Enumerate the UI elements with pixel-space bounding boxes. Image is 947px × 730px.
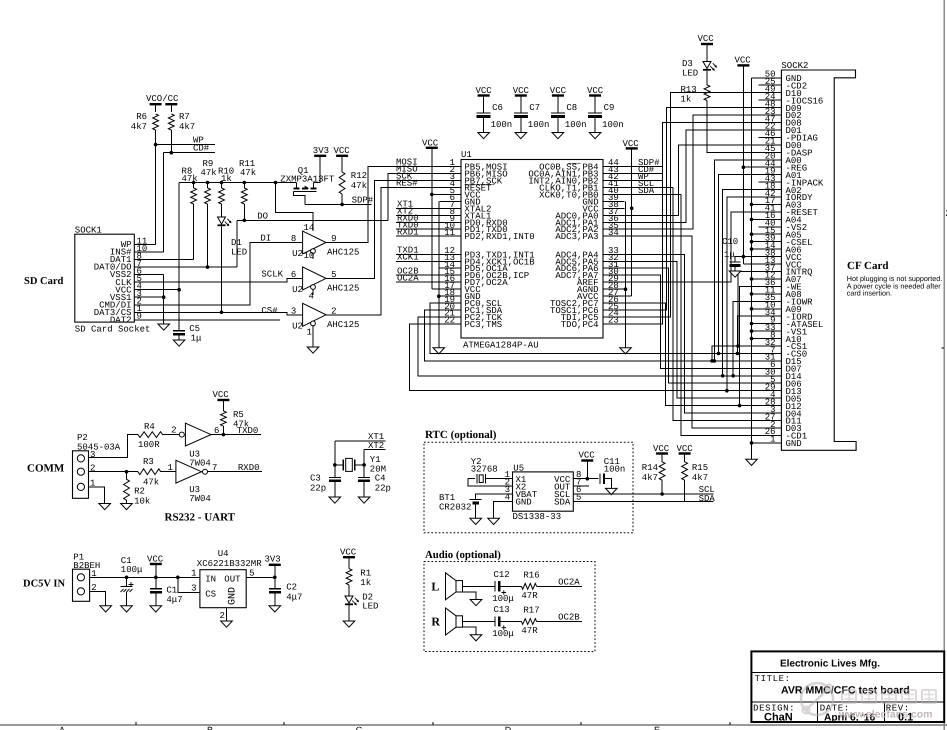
svg-text:CS: CS [205, 590, 216, 600]
net SDP# label U1 right [625, 166, 663, 168]
U1 pin 1 PB5,MOSI [440, 166, 462, 168]
svg-text:3: 3 [90, 450, 95, 460]
U1 pin 27 AVCC [603, 295, 625, 297]
power bar VCC C8 [552, 94, 564, 96]
wire AVCC stub [625, 295, 632, 297]
svg-text:ATMEGA1284P-AU: ATMEGA1284P-AU [463, 341, 539, 351]
SOCK2 pin 38 VCC [759, 256, 782, 258]
svg-text:R3: R3 [143, 457, 154, 467]
resistor R3 47k [138, 469, 161, 475]
resistor R6 [153, 114, 159, 130]
svg-text:SD Card: SD Card [24, 276, 64, 287]
svg-text:SDP#: SDP# [352, 196, 374, 206]
svg-text:6: 6 [291, 270, 296, 280]
svg-text:47k: 47k [143, 478, 159, 488]
SOCK2 pin 18 A02 [759, 189, 782, 191]
node U1 pin28 AGND [624, 287, 628, 291]
svg-text:RXD0: RXD0 [238, 463, 260, 473]
diode D3 LED [706, 44, 708, 62]
svg-text:SDA: SDA [638, 186, 655, 196]
svg-text:CF Card: CF Card [847, 260, 888, 272]
wire VCC bar to rail [155, 564, 157, 577]
wire VCC riser U1 left [431, 148, 433, 289]
ground C10 [729, 271, 741, 277]
svg-text:34: 34 [608, 228, 619, 238]
SOCK2 pin 47 D08 [759, 122, 782, 124]
net TXD1 label [396, 253, 440, 255]
wire U1 PC pin to CF row 4 [625, 108, 759, 311]
wire U1 pin17 VCC [432, 288, 440, 290]
svg-text:C7: C7 [529, 103, 540, 113]
svg-text:ChaN: ChaN [764, 712, 793, 724]
SOCK2 pin 10 A09 [752, 308, 782, 310]
SOCK2 pin 36 -WE [759, 285, 782, 287]
wire U1 pin 22 to CF row 42 [410, 324, 759, 391]
node CF GND rail row 27 [750, 277, 754, 281]
SOCK2 pin 13 VCC [759, 263, 782, 265]
resistor R10 [221, 183, 223, 189]
svg-text:47k: 47k [201, 168, 217, 178]
SOCK2 pin 49 D10 [759, 92, 782, 94]
SOCK2 pin 41 -RESET [759, 211, 782, 213]
svg-text:1: 1 [307, 328, 312, 338]
resistor R13 1k [706, 71, 708, 85]
wire U5 GND pin4 [494, 501, 513, 518]
U1 pin 32 ADC5,PA5 [603, 260, 625, 262]
capacitor C8 100n [557, 96, 559, 114]
capacitor C12 100u [494, 581, 496, 591]
svg-text:U2: U2 [292, 322, 303, 332]
wire XT2 riser [363, 449, 365, 465]
grid tick [135, 722, 137, 725]
wire P2 pin1 to ground [89, 487, 105, 504]
wire XT1 riser [334, 441, 336, 465]
U1 pin 40 XCK0,T0,PB0 [603, 193, 625, 195]
title block outer box [751, 651, 944, 722]
SOCK2 pin 30 D14 [759, 375, 782, 377]
net SDA line [573, 500, 713, 502]
ground C4 [358, 497, 370, 503]
ground P1 [100, 606, 112, 612]
svg-text:XC6221B332MR: XC6221B332MR [197, 559, 262, 569]
svg-text:AHC125: AHC125 [327, 248, 359, 258]
svg-text:VCC: VCC [334, 146, 351, 156]
svg-text:100n: 100n [565, 120, 587, 130]
svg-text:CR2032: CR2032 [439, 503, 471, 513]
power bar VCO/CC right [165, 103, 177, 105]
power bar VCC R15 [679, 452, 691, 454]
wire speaker R [463, 621, 495, 623]
wire Y2 loop to X2 [468, 479, 513, 487]
wire WP to SD socket pin 11 [155, 145, 157, 245]
U1 pin 29 AREF [603, 281, 625, 283]
diode D1 LED [221, 204, 223, 217]
node CF GND rail row 35 [750, 337, 754, 341]
resistor R15 4k7 [684, 454, 686, 462]
wire speaker L [463, 585, 495, 587]
power bar VCO/CC left [150, 103, 162, 105]
U1 pin 33 ADC4,PA4 [603, 253, 625, 255]
svg-text:Y1: Y1 [370, 455, 381, 465]
svg-text:VCC: VCC [213, 390, 230, 400]
node C1 top [125, 576, 129, 580]
node CF GND rail row 19 [750, 218, 754, 222]
wire CD# to SD socket pin 10 [163, 153, 165, 252]
svg-text:SCLK: SCLK [261, 270, 283, 280]
U1 pin 15 PD6,OC2B,ICP [440, 274, 462, 276]
grid tick [283, 722, 285, 725]
svg-text:R2: R2 [134, 487, 145, 497]
grid tick right border [942, 347, 945, 349]
svg-text:SDA: SDA [554, 498, 571, 508]
svg-text:ZXMP3A13FT: ZXMP3A13FT [280, 175, 335, 185]
node R10 top [220, 181, 224, 185]
net XT2 label [396, 214, 440, 216]
net SCL line [573, 493, 713, 495]
svg-text:MISO: MISO [396, 165, 418, 175]
net SDA label U1 right [625, 193, 682, 195]
svg-text:XT2: XT2 [368, 441, 384, 451]
svg-text:R17: R17 [523, 606, 539, 616]
SOCK2 pin 32 -CS1 [759, 345, 782, 347]
net TXD0 label [396, 228, 440, 230]
wire U1 ADC pin to CF row 5 [625, 115, 759, 229]
wire U1 right pin to CF row 47 [625, 236, 759, 428]
node R9 top [206, 181, 210, 185]
net WP label U1 right [625, 179, 663, 181]
node U1 pin38 VCC [630, 207, 634, 211]
svg-text:LED: LED [231, 248, 247, 258]
diode D2 LED [348, 585, 350, 596]
net SCL label U1 right [625, 186, 674, 188]
svg-text:C8: C8 [566, 103, 577, 113]
U1 pin 41 CLKO,T1,PB1 [603, 186, 625, 188]
U1 pin 22 PC3,TMS [440, 323, 462, 325]
svg-text:22p: 22p [375, 484, 391, 494]
power bar VCC input [150, 563, 162, 565]
wire SD CMD/DI row [134, 243, 302, 305]
svg-text:CS#: CS# [261, 306, 278, 316]
svg-text:VCC: VCC [735, 56, 752, 66]
SOCK2 pin 3 D04 [759, 412, 782, 414]
ground C2 [269, 606, 281, 612]
resistor R14 4k7 [661, 454, 663, 462]
net OC2B label [396, 274, 440, 276]
wire CF VCC pin13 [743, 263, 758, 265]
wire net -IORD riser [737, 316, 758, 353]
wire R6 top [155, 104, 157, 112]
node CF GND rail row 33 [750, 322, 754, 326]
wire SD DAT3/CS row [134, 312, 302, 315]
wire R3 to U3 inverter 2 [161, 471, 176, 473]
wire speaker R ground leg [463, 627, 477, 635]
U1 pin 13 PD4,XCK1,OC1B [440, 260, 462, 262]
svg-text:8: 8 [291, 234, 296, 244]
power bar VCC R5 [217, 399, 229, 401]
svg-text:C1: C1 [166, 586, 177, 596]
svg-text:B: B [207, 725, 213, 730]
node CF GND pin1 [750, 441, 754, 445]
resistor R2 10k [126, 472, 128, 480]
net DO line [237, 219, 388, 221]
watermark characters [842, 690, 936, 703]
wire R7 top [170, 104, 172, 112]
svg-text:100μ: 100μ [121, 565, 143, 575]
wire R13 to CF -DASP [707, 101, 759, 153]
U1 pin 24 TDI,PC5 [603, 316, 625, 318]
svg-text:3V3: 3V3 [265, 555, 281, 565]
ground U2 enable [307, 347, 319, 353]
wire CF VCC pin38 [743, 256, 758, 258]
svg-text:R5: R5 [233, 410, 244, 420]
U1 pin 42 INT2,AIN0,PB2 [603, 179, 625, 181]
ground C6 [478, 133, 490, 139]
wire SD VSS2 row [134, 274, 163, 276]
svg-text:LED: LED [362, 602, 378, 612]
SOCK2 pin 16 A04 [752, 218, 782, 220]
wire U1 ADC pin to CF row 9 [625, 145, 759, 216]
SOCK2 pin 19 A01 [759, 174, 782, 176]
node CF GND rail row 31 [750, 307, 754, 311]
border frame bottom line [0, 724, 947, 726]
U1 pin 30 ADC7,PA7 [603, 274, 625, 276]
SOCK2 pin 5 D06 [759, 382, 782, 384]
svg-text:ADC3,PA3: ADC3,PA3 [555, 232, 598, 242]
svg-text:D: D [505, 725, 512, 730]
net RXD1 label [396, 235, 440, 237]
node R12 bottom [340, 203, 344, 207]
power bar 3V3 out [269, 564, 281, 566]
node CD junction [170, 151, 174, 155]
U1 pin 3 PB7,SCK [440, 179, 462, 181]
node 3V3 out [273, 576, 277, 580]
SOCK2 pin 37 INTRQ [759, 271, 782, 273]
net RXD0 label [396, 221, 440, 223]
resistor R5 47k [222, 400, 224, 411]
wire speaker L ground leg [463, 592, 477, 600]
svg-text:1k: 1k [360, 578, 371, 588]
speaker R [446, 608, 457, 635]
wire 3V3 to Q1 [314, 156, 321, 183]
SOCK2 pin 12 A07 [752, 278, 782, 280]
SOCK2 pin 44 -REG [759, 166, 782, 168]
svg-text:www.elecfans.com: www.elecfans.com [838, 709, 933, 721]
node R14 SCL [660, 492, 664, 496]
Audio dashed box [424, 562, 595, 652]
SOCK2 pin 26 -CD1 [759, 434, 782, 436]
resistor R1 1k [348, 557, 350, 568]
svg-text:100n: 100n [604, 464, 626, 474]
wire SD WP row [134, 244, 155, 246]
wire U1 right pin to CF row 45 [625, 254, 759, 413]
svg-text:C12: C12 [494, 570, 510, 580]
node crystal right [362, 463, 366, 467]
svg-text:DC5V IN: DC5V IN [23, 579, 66, 590]
power bar VCC CF [737, 64, 749, 66]
U1 pin 26 TOSC2,PC7 [603, 302, 625, 304]
U1 pin 9 PD0,RXD0 [440, 221, 462, 223]
wire GND riser U1 right [625, 201, 627, 347]
svg-text:DS1338-33: DS1338-33 [513, 512, 562, 522]
node CF GND rail row 22 [750, 240, 754, 244]
SOCK2 pin 23 D02 [759, 114, 782, 116]
U1 pin 38 VCC [603, 207, 625, 209]
net SDP# line [305, 203, 371, 205]
power bar VCC C7 [515, 94, 527, 96]
wire U1 PC pin to CF row 2 [625, 93, 759, 317]
wire U5 OUT stub [573, 485, 589, 487]
node crystal left [333, 463, 337, 467]
wire P2 pin2 to R3 [89, 471, 138, 473]
svg-text:GND: GND [786, 439, 802, 449]
capacitor C6 100n [483, 96, 485, 114]
wire D2 to ground [348, 605, 350, 621]
U1 pin 5 VCC [440, 193, 462, 195]
node CF GND rail row 21 [750, 232, 754, 236]
svg-text:U2: U2 [292, 285, 303, 295]
svg-text:R13: R13 [681, 85, 697, 95]
wire net A00 riser [714, 160, 758, 361]
svg-text:47k: 47k [240, 168, 256, 178]
wire C12 to R16 [499, 585, 521, 587]
svg-text:4μ7: 4μ7 [166, 595, 182, 605]
svg-text:47R: 47R [521, 591, 538, 601]
wire U1 pin 26 to CF row 44 [625, 303, 759, 406]
node VCC tap [154, 576, 158, 580]
node WP junction [154, 143, 158, 147]
wire SD DAT2 row [134, 319, 280, 321]
SOCK2 pin 43 -INPACK [759, 181, 782, 183]
capacitor C4 22p [363, 465, 365, 478]
wire R16 to net OC2A [537, 585, 583, 587]
SOCK2 pin 48 D09 [759, 107, 782, 109]
power bar VCC R1 [343, 556, 355, 558]
wire DO from DAT0 riser [236, 220, 238, 267]
U1 pin 44 OC0B,SS,PB4 [603, 166, 625, 168]
wire P1 pin2 to ground [90, 591, 106, 605]
node SD VCC junction [177, 288, 181, 292]
svg-text:OC2A: OC2A [558, 578, 580, 588]
wire GND riser U1 left [438, 201, 440, 347]
svg-text:47k: 47k [182, 174, 198, 184]
wire CF VCC rail [742, 65, 744, 264]
wire U1 pin 20 to CF row 38 [425, 310, 759, 361]
watermark logo circle [801, 683, 833, 715]
svg-text:DO: DO [257, 212, 268, 222]
SOCK2 pin 39 -CSEL [752, 241, 782, 243]
U1 pin 39 GND [603, 200, 625, 202]
svg-text:U1: U1 [461, 150, 472, 160]
svg-text:BT1: BT1 [439, 493, 455, 503]
U1 pin 21 PC2,TCK [440, 316, 462, 318]
SOCK2 pin 4 D05 [759, 397, 782, 399]
node R9 DAT0 junction [206, 265, 210, 269]
wire SDA net to CF -CD1 [681, 194, 759, 435]
wire U1 right pin to CF row 41 [625, 268, 759, 383]
op-amp U3 inverter 1 7W04 [179, 432, 184, 437]
svg-text:4μ7: 4μ7 [286, 593, 302, 603]
U1 pin 7 XTAL2 [440, 207, 462, 209]
node R5 bottom [222, 433, 226, 437]
U1 pin 31 ADC6,PA6 [603, 267, 625, 269]
grid tick [729, 722, 731, 725]
ground C7 [515, 133, 527, 139]
node R11 top [243, 181, 247, 185]
svg-text:TITLE:: TITLE: [755, 674, 791, 684]
capacitor C2 4u7 [274, 577, 276, 588]
wire U2 buffer1 output to MOSI [326, 167, 461, 243]
wire U1 ADC pin to CF row 7 [625, 130, 759, 222]
power bar VCC U5 [581, 459, 593, 461]
ground R2 [126, 500, 128, 503]
wire U3 out to RXD0 [208, 471, 263, 473]
wire SD VSS1 row [134, 296, 163, 298]
capacitor C9 100n [594, 96, 596, 114]
svg-text:100n: 100n [491, 120, 513, 130]
node CF GND rail row 17 [750, 203, 754, 207]
svg-text:PD2,RXD1,INT0: PD2,RXD1,INT0 [464, 232, 534, 242]
svg-text:COMM: COMM [27, 463, 65, 475]
SOCK2 pin 28 D12 [759, 405, 782, 407]
capacitor C5 [173, 330, 185, 332]
wire DO to MISO [388, 173, 461, 220]
svg-text:L: L [431, 579, 439, 593]
svg-text:C6: C6 [492, 103, 503, 113]
svg-text:R1: R1 [360, 569, 371, 579]
ground C8 [552, 133, 564, 139]
wire SCL net to CF D11 [673, 187, 758, 420]
svg-text:2: 2 [171, 426, 176, 436]
ground P2 [99, 504, 111, 510]
svg-text:PC3,TMS: PC3,TMS [464, 320, 502, 330]
svg-text:OUT: OUT [224, 575, 241, 585]
svg-text:XCK1: XCK1 [397, 253, 419, 263]
title block divider vertical 1 [817, 702, 819, 722]
svg-text:Electronic Lives Mfg.: Electronic Lives Mfg. [780, 659, 880, 670]
net OC2A label [396, 281, 440, 283]
svg-text:VCC: VCC [698, 34, 715, 44]
svg-text:TXD0: TXD0 [237, 426, 259, 436]
svg-text:R4: R4 [144, 422, 155, 432]
SOCK2 pin 40 -VS2 [759, 226, 782, 228]
svg-text:R: R [431, 615, 440, 629]
svg-text:1k: 1k [681, 95, 692, 105]
U1 pin 28 AGND [603, 288, 625, 290]
SOCK2 pin 15 A05 [752, 233, 782, 235]
U1 pin 6 GND [440, 200, 462, 202]
svg-text:C10: C10 [722, 237, 738, 247]
U1 pin 8 XTAL1 [440, 214, 462, 216]
ground C3 [329, 497, 341, 503]
svg-text:1k: 1k [221, 174, 232, 184]
SOCK2 pin 7 -CS0 [759, 353, 782, 355]
wire SD DAT0/DO row [134, 266, 237, 268]
SOCK2 pin 20 A00 [759, 159, 782, 161]
SOCK2 pin 17 A03 [752, 203, 782, 205]
op-amp U2 buffer AHC125 #2 [303, 267, 326, 290]
wire P2 pin3 to R4 [89, 435, 138, 458]
wire U2 enable 10 stub [312, 254, 314, 260]
SOCK2 pin 27 D11 [759, 420, 782, 422]
wire U4 out [246, 576, 275, 578]
wire R11 to DO line [243, 204, 245, 220]
title block divider vertical 2 [884, 702, 886, 722]
node R8 top [192, 181, 196, 185]
ground speaker L [470, 600, 482, 606]
U1 pin 14 PD5,OC1A [440, 267, 462, 269]
op-amp U3 inverter 2 7W04 [176, 460, 202, 483]
wire buffer VCC feed [276, 183, 313, 232]
